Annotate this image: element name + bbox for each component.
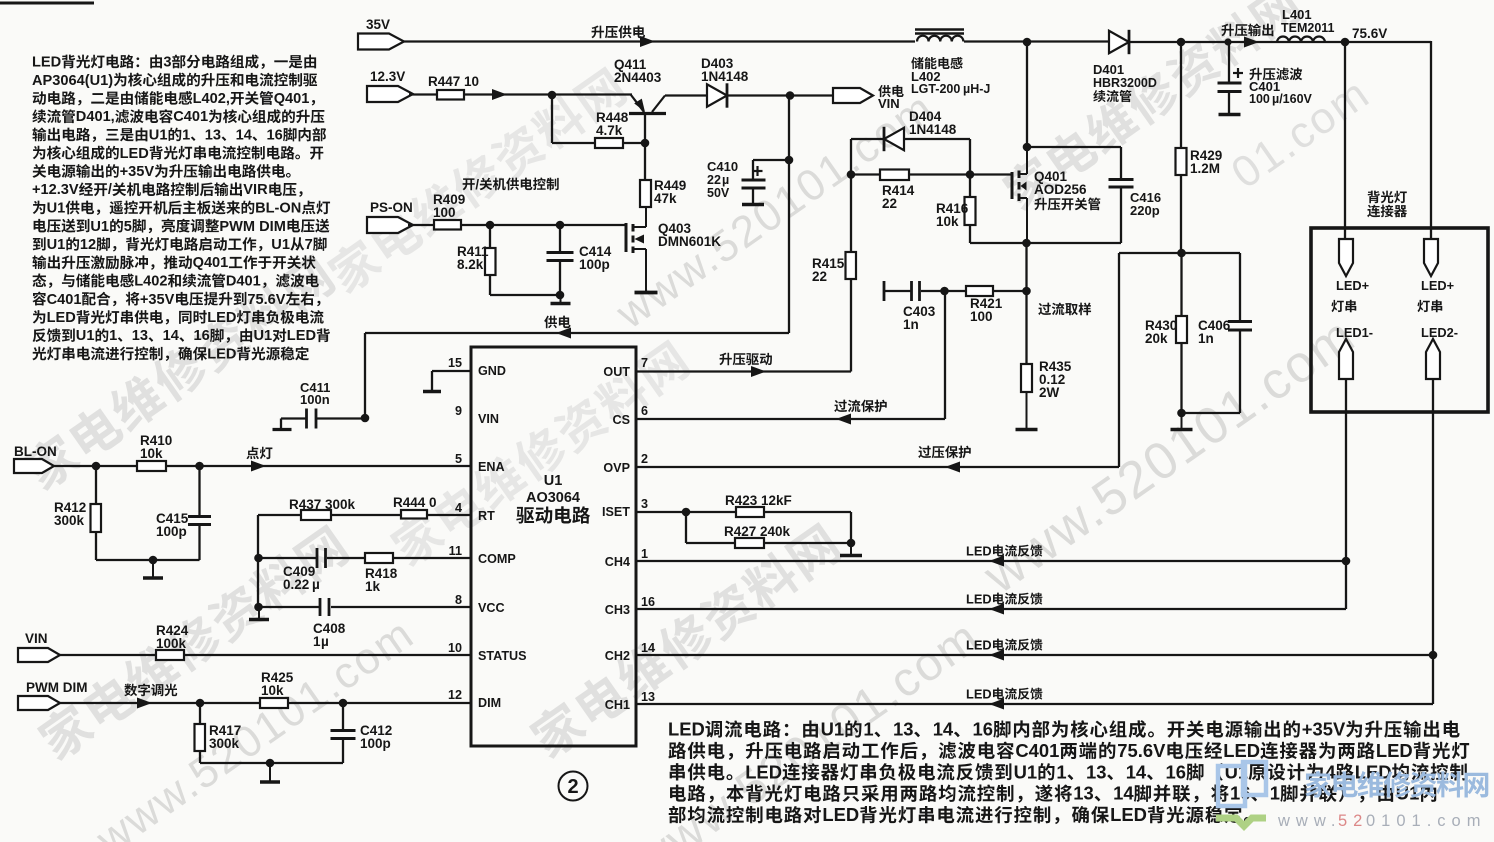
node boost output label 升压输出 — [1221, 24, 1273, 48]
text pin numbers left — [448, 356, 462, 702]
wire OVP pin 2 — [636, 446, 1119, 473]
svg-text:AO3064: AO3064 — [526, 490, 580, 506]
svg-text:VIN: VIN — [478, 412, 499, 426]
resistor R435 shunt — [1021, 291, 1072, 400]
diode D403 — [701, 56, 749, 108]
node junction C412 tap — [339, 699, 348, 708]
inductor L401 — [1277, 7, 1335, 43]
svg-text:8: 8 — [455, 593, 462, 607]
svg-text:+35V: +35V — [1302, 719, 1346, 740]
svg-text:LGT-200: LGT-200 — [911, 82, 960, 96]
svg-text:7: 7 — [305, 237, 313, 253]
op-amp U1 AO3064 driver IC — [471, 347, 636, 746]
svg-text:8.2k: 8.2k — [457, 257, 484, 272]
resistor R414 — [851, 170, 1012, 212]
node junction LED1- to CH4 — [1342, 557, 1351, 566]
wire 35V rail — [404, 40, 1431, 43]
svg-text:µ: µ — [321, 634, 329, 649]
svg-text:22: 22 — [812, 269, 827, 284]
svg-text:µH-J: µH-J — [963, 82, 990, 96]
node junction R411/C414 ground rail — [490, 291, 564, 300]
text pin numbers right — [641, 356, 655, 704]
capacitor C403 — [884, 281, 966, 332]
wire Q401 drain to rail — [1023, 42, 1032, 151]
capacitor C401 — [1218, 42, 1313, 115]
svg-text:LED: LED — [966, 592, 992, 607]
node junction R429/R430 — [1119, 249, 1240, 258]
resistor R430 — [1145, 253, 1187, 413]
wire RT/COMP/VCC common vertical — [257, 515, 259, 607]
resistor R417 — [195, 703, 242, 763]
svg-text:TEM2011: TEM2011 — [1281, 21, 1335, 35]
svg-text:2: 2 — [641, 452, 648, 466]
svg-text:14: 14 — [163, 328, 180, 344]
wire supply drop to pin 9 — [364, 333, 366, 418]
wire 75.6V to LED1+ column — [1344, 42, 1346, 240]
node junction R430/C406 bottom — [1177, 409, 1240, 418]
svg-text:U1: U1 — [821, 719, 845, 740]
svg-text:U1: U1 — [1014, 761, 1038, 782]
wire R409 to Q403 gate — [461, 224, 626, 226]
svg-text:10k: 10k — [140, 446, 163, 461]
node junction R417 tap — [196, 699, 205, 708]
svg-text:7: 7 — [641, 356, 648, 370]
node junction Q411 base — [641, 139, 650, 148]
svg-text:2W: 2W — [1039, 385, 1060, 400]
wire Q401 source rail — [970, 239, 1121, 248]
ground below C412 — [260, 763, 280, 782]
svg-text:LED: LED — [207, 310, 236, 326]
svg-text:100p: 100p — [156, 524, 187, 539]
svg-text:13: 13 — [641, 690, 655, 704]
svg-text:U1: U1 — [90, 219, 109, 235]
svg-text:U1: U1 — [149, 128, 168, 144]
svg-text:16: 16 — [641, 595, 655, 609]
wire supply rail to U1 VIN — [365, 316, 789, 339]
svg-text:LED1-: LED1- — [1336, 325, 1373, 340]
svg-text:C401: C401 — [1015, 740, 1059, 761]
capacitor C409 — [258, 548, 365, 592]
svg-text:16: 16 — [1166, 761, 1186, 782]
svg-text:22: 22 — [707, 173, 721, 187]
svg-text:35V: 35V — [366, 17, 390, 32]
svg-text:R437 300k: R437 300k — [289, 497, 356, 512]
node circled 2 schematic number — [559, 772, 588, 801]
svg-text:52: 52 — [1338, 812, 1368, 830]
svg-text:L402: L402 — [134, 274, 167, 290]
svg-text:1: 1 — [313, 634, 321, 649]
svg-text:Q401: Q401 — [193, 255, 229, 271]
svg-text:U1: U1 — [544, 473, 563, 489]
svg-text:LED+: LED+ — [1421, 278, 1454, 293]
node VIN supply output connector — [833, 85, 904, 111]
resistor R425 — [260, 670, 294, 708]
svg-text:R444 0: R444 0 — [393, 495, 437, 510]
node junction VIN takeoff — [786, 91, 795, 100]
node BL-ON input connector — [14, 444, 57, 473]
svg-text:/: / — [475, 177, 479, 192]
capacitor C416 snubber — [1027, 147, 1161, 243]
svg-text:10: 10 — [448, 641, 462, 655]
svg-text:DMN601K: DMN601K — [658, 234, 721, 249]
svg-text:13: 13 — [205, 128, 221, 144]
svg-text:LED: LED — [668, 719, 705, 740]
svg-text:C401: C401 — [173, 109, 208, 125]
svg-text:16: 16 — [194, 328, 210, 344]
wire VIN to STATUS pin 10 — [60, 654, 471, 656]
resistor R448 — [552, 95, 645, 148]
svg-text:R423 12kF: R423 12kF — [725, 493, 792, 508]
transistor Q403 — [626, 207, 721, 291]
svg-text:1: 1 — [182, 128, 190, 144]
svg-text:LED: LED — [822, 804, 859, 825]
resistor R418 — [365, 553, 471, 594]
node junction COMP tap — [254, 554, 263, 563]
node 12.3V input connector — [367, 69, 413, 102]
svg-text:2: 2 — [567, 776, 578, 798]
svg-text:ISET: ISET — [602, 505, 630, 519]
svg-text:BL-ON: BL-ON — [14, 444, 57, 459]
wire Q411 collector to D403 — [665, 94, 707, 96]
wire PWM DIM to DIM pin 12 — [60, 684, 471, 709]
svg-text:100n: 100n — [300, 392, 330, 407]
svg-text:50V: 50V — [707, 186, 730, 200]
node PS-ON input connector — [367, 200, 413, 233]
svg-text:CH3: CH3 — [605, 603, 630, 617]
resistor R409 — [433, 192, 465, 230]
resistor R423 — [686, 493, 851, 517]
svg-text:13: 13 — [893, 719, 913, 740]
svg-text:U1: U1 — [47, 201, 66, 217]
resistor R437 — [289, 497, 356, 520]
wire PS-ON to R409 — [408, 224, 434, 226]
text block: circuit description paragraph — [32, 54, 330, 362]
node LED+ pin string 1 — [1336, 239, 1369, 293]
svg-text:1: 1 — [1056, 761, 1066, 782]
node VIN input connector — [18, 631, 60, 662]
svg-text:U1: U1 — [76, 328, 95, 344]
svg-text:STATUS: STATUS — [478, 649, 527, 663]
svg-text:LED: LED — [32, 55, 61, 71]
node junction C403/R421 — [940, 287, 949, 296]
svg-text:1.2M: 1.2M — [1190, 161, 1220, 176]
wire CS vertical — [944, 291, 946, 419]
node junction R412 tap — [92, 462, 101, 471]
resistor R415 — [812, 175, 856, 372]
svg-text:1n: 1n — [903, 317, 919, 332]
svg-text:100: 100 — [1249, 92, 1270, 106]
svg-text:COMP: COMP — [478, 552, 516, 566]
svg-text:3: 3 — [641, 497, 648, 511]
resistor R416 — [936, 175, 976, 244]
node backlight connector box — [1311, 191, 1488, 412]
svg-text:LED: LED — [1376, 740, 1413, 761]
resistor R427 — [686, 512, 851, 548]
svg-text:+12.3V: +12.3V — [32, 182, 79, 198]
node 75.6V net label — [1341, 26, 1388, 46]
svg-text:LED: LED — [966, 687, 992, 702]
svg-text:HBR3200D: HBR3200D — [1093, 76, 1157, 90]
svg-text:220p: 220p — [1130, 203, 1160, 218]
svg-text:D401: D401 — [226, 274, 261, 290]
svg-text:LED: LED — [966, 638, 992, 653]
svg-text:10k: 10k — [261, 683, 284, 698]
svg-text:9: 9 — [455, 404, 462, 418]
text 开/关机供电控制 — [463, 177, 559, 192]
node watermark logo 家电维修资料网 www.520101.com — [1216, 762, 1488, 830]
svg-text:+35V: +35V — [140, 292, 175, 308]
svg-text:10k: 10k — [936, 214, 959, 229]
svg-text:LED: LED — [966, 544, 992, 559]
svg-text:300k: 300k — [54, 513, 85, 528]
node LED1- pin — [1336, 325, 1373, 379]
ground below R435 — [1016, 392, 1038, 430]
wire Q411 base to R449 — [644, 114, 646, 180]
wire VIN vertical drop — [788, 96, 790, 334]
wire R412/C415 ground rail — [96, 556, 200, 565]
node 35V input connector — [358, 17, 404, 50]
svg-text:14: 14 — [641, 641, 655, 655]
svg-text:14: 14 — [1126, 761, 1147, 782]
svg-text:13: 13 — [132, 328, 148, 344]
svg-text:OUT: OUT — [603, 365, 630, 379]
resistor R411 — [457, 225, 496, 295]
svg-text:CH4: CH4 — [605, 555, 630, 569]
svg-text:LED: LED — [120, 146, 149, 162]
node junction Q401 drain on rail — [1023, 38, 1032, 47]
svg-text:100p: 100p — [579, 257, 610, 272]
svg-text:ENA: ENA — [478, 460, 505, 474]
svg-text:1N4148: 1N4148 — [701, 69, 749, 84]
ground below C414 — [551, 295, 571, 304]
svg-text:22: 22 — [882, 196, 897, 211]
svg-text:12: 12 — [80, 237, 96, 253]
svg-text:20k: 20k — [1145, 331, 1168, 346]
capacitor C406 — [1198, 253, 1252, 413]
svg-text:4: 4 — [455, 501, 462, 515]
svg-text:300k: 300k — [209, 736, 240, 751]
svg-text:OVP: OVP — [603, 461, 630, 475]
node junction R411 tap — [486, 221, 495, 230]
svg-text:DIM: DIM — [478, 696, 501, 710]
wire R417/C412 ground rail — [200, 759, 343, 768]
svg-text:1: 1 — [641, 547, 648, 561]
node junction R448 tap — [548, 91, 557, 100]
svg-text:R427 240k: R427 240k — [724, 524, 791, 539]
svg-text:100k: 100k — [156, 636, 187, 651]
ground below R430 — [1171, 413, 1193, 430]
svg-text:RT: RT — [478, 509, 495, 523]
diode D401 — [1093, 30, 1157, 102]
node junction shunt top — [1022, 287, 1031, 296]
wire CH2 LED current feedback — [636, 638, 1433, 661]
wire R447 to Q411 emitter — [464, 89, 632, 100]
ground pin 15 GND — [423, 371, 471, 392]
svg-text:LED: LED — [47, 310, 76, 326]
svg-text:L401: L401 — [1282, 7, 1312, 22]
svg-text:µ/160V: µ/160V — [1272, 92, 1313, 106]
transistor Q401 — [1012, 147, 1100, 243]
svg-text:LED2-: LED2- — [1421, 325, 1458, 340]
wire BL-ON to ENA pin 5 — [54, 447, 471, 472]
text 灯串 labels — [1331, 300, 1442, 312]
node junction R429 on rail — [1177, 38, 1186, 47]
svg-text:BL-ON: BL-ON — [255, 201, 301, 217]
svg-text:µ: µ — [312, 577, 320, 592]
node PWM DIM input connector — [18, 680, 88, 710]
node LED+ pin string 2 — [1421, 239, 1454, 293]
svg-text:U1: U1 — [271, 237, 290, 253]
svg-text:12: 12 — [448, 688, 462, 702]
svg-text:VIR: VIR — [243, 182, 268, 198]
svg-text:0.22: 0.22 — [283, 577, 309, 592]
svg-text:www.: www. — [1277, 812, 1341, 830]
resistor R421 — [966, 286, 1026, 324]
wire CH4 LED current feedback — [636, 544, 1346, 567]
svg-text:LED: LED — [745, 761, 782, 782]
svg-text:75.6V: 75.6V — [247, 292, 285, 308]
wire CH3 LED current feedback — [636, 592, 1346, 615]
svg-text:5: 5 — [124, 219, 132, 235]
ground RT branch — [249, 607, 269, 620]
wire OUT pin 7 drive — [636, 353, 851, 377]
svg-text:LED: LED — [1223, 740, 1260, 761]
ground ISET network — [840, 543, 862, 556]
svg-text:16: 16 — [973, 719, 993, 740]
capacitor C410 — [707, 156, 793, 205]
svg-text:U1: U1 — [254, 328, 273, 344]
diode D404 — [851, 109, 970, 174]
svg-text:C401: C401 — [47, 292, 82, 308]
svg-text:1n: 1n — [1198, 331, 1214, 346]
svg-text:1: 1 — [1270, 783, 1280, 804]
svg-text:75.6V: 75.6V — [1352, 26, 1387, 41]
svg-text:11: 11 — [449, 544, 462, 558]
svg-text:GND: GND — [478, 364, 506, 378]
node boost supply label 升压供电 — [591, 25, 655, 47]
inductor L402 — [911, 30, 990, 97]
wire LED1- feedback drop — [1345, 379, 1347, 609]
svg-text:AOD256: AOD256 — [1034, 182, 1087, 197]
svg-text:14: 14 — [1113, 783, 1134, 804]
svg-text:PS-ON: PS-ON — [370, 200, 413, 215]
svg-text:PWM DIM: PWM DIM — [26, 680, 88, 695]
wire CH1 LED current feedback — [636, 687, 1433, 710]
svg-text:5: 5 — [455, 452, 462, 466]
svg-text:15: 15 — [448, 356, 462, 370]
svg-text:VIN: VIN — [878, 96, 900, 111]
node junction LED2- to CH2 — [1429, 651, 1438, 660]
wire scan-edge artifact — [0, 2, 94, 5]
wire ISET pin 3 — [636, 511, 686, 513]
node junction R423/R427 right — [847, 512, 856, 547]
svg-text:LED+: LED+ — [1336, 278, 1369, 293]
svg-text:6: 6 — [641, 404, 648, 418]
svg-text:CH1: CH1 — [605, 698, 630, 712]
svg-text:LED: LED — [1110, 804, 1147, 825]
svg-text:µ: µ — [722, 173, 729, 187]
ground below C415 — [143, 560, 163, 578]
svg-text:4.7k: 4.7k — [596, 123, 623, 138]
svg-text:1: 1 — [863, 719, 873, 740]
wire RT branch — [258, 514, 471, 516]
transistor Q411 — [614, 57, 666, 114]
node junction C414 tap — [556, 221, 565, 230]
node junction VCC tap — [254, 603, 263, 612]
resistor R444 — [393, 495, 437, 519]
svg-text:+35V: +35V — [120, 164, 155, 180]
svg-text:L402,: L402, — [193, 91, 230, 107]
ground Q403 source — [635, 291, 658, 295]
svg-text:13: 13 — [1073, 783, 1093, 804]
svg-text:LED: LED — [207, 347, 236, 363]
node junction C415 tap — [195, 462, 204, 471]
resistor R447 — [428, 74, 479, 100]
svg-text:PWM DIM: PWM DIM — [219, 219, 285, 235]
node junction R414/D404/R415 — [847, 170, 856, 179]
resistor R449 — [640, 178, 686, 207]
svg-text:C410: C410 — [707, 159, 738, 174]
svg-text:100p: 100p — [360, 736, 391, 751]
wire OVP vertical — [1118, 253, 1120, 467]
capacitor C415 — [156, 466, 211, 560]
resistor R424 — [156, 623, 189, 660]
capacitor C408 — [258, 598, 471, 649]
svg-text:D401,: D401, — [76, 109, 115, 125]
wire 12.3V to R447 — [409, 93, 437, 95]
node junction ISET — [682, 508, 691, 517]
wire D403 to VIN connector — [726, 94, 833, 96]
wire rail corner to LED2+ column — [1430, 41, 1432, 240]
svg-text:100: 100 — [433, 205, 456, 220]
svg-text:16: 16 — [267, 128, 283, 144]
svg-text:VIN: VIN — [25, 631, 48, 646]
svg-text:75.6V: 75.6V — [1117, 740, 1166, 761]
svg-text:3: 3 — [163, 55, 171, 71]
resistor R429 — [1176, 42, 1223, 253]
svg-text:/: / — [108, 182, 112, 198]
svg-text:0101.com: 0101.com — [1366, 812, 1486, 830]
svg-text:14: 14 — [933, 719, 954, 740]
svg-text:U1: U1 — [47, 237, 66, 253]
node junction pin9/C411 — [361, 414, 370, 423]
svg-text:1N4148: 1N4148 — [909, 122, 957, 137]
capacitor C411 — [273, 380, 366, 430]
svg-text:100: 100 — [970, 309, 993, 324]
svg-text:VCC: VCC — [478, 601, 505, 615]
svg-text:CH2: CH2 — [605, 649, 630, 663]
svg-text:Q401: Q401 — [274, 91, 310, 107]
capacitor C414 — [547, 225, 612, 295]
svg-text:D401: D401 — [1093, 62, 1124, 77]
resistor R410 — [137, 433, 172, 471]
svg-text:LED: LED — [287, 328, 316, 344]
wire CS pin 6 — [636, 400, 945, 425]
svg-text:1: 1 — [109, 328, 117, 344]
svg-text:CS: CS — [613, 413, 631, 427]
svg-text:1k: 1k — [365, 579, 381, 594]
text block: LED current-regulation paragraph — [668, 719, 1469, 826]
wire LED2- feedback drop — [1432, 379, 1434, 704]
svg-text:R447 10: R447 10 — [428, 74, 479, 89]
text 过流取样 — [1038, 303, 1091, 316]
svg-text:AP3064(U1): AP3064(U1) — [32, 73, 113, 89]
svg-text:13: 13 — [1086, 761, 1106, 782]
capacitor C412 — [331, 703, 393, 763]
node LED2- pin — [1421, 325, 1458, 379]
svg-text:14: 14 — [236, 128, 253, 144]
resistor R412 — [54, 466, 101, 560]
